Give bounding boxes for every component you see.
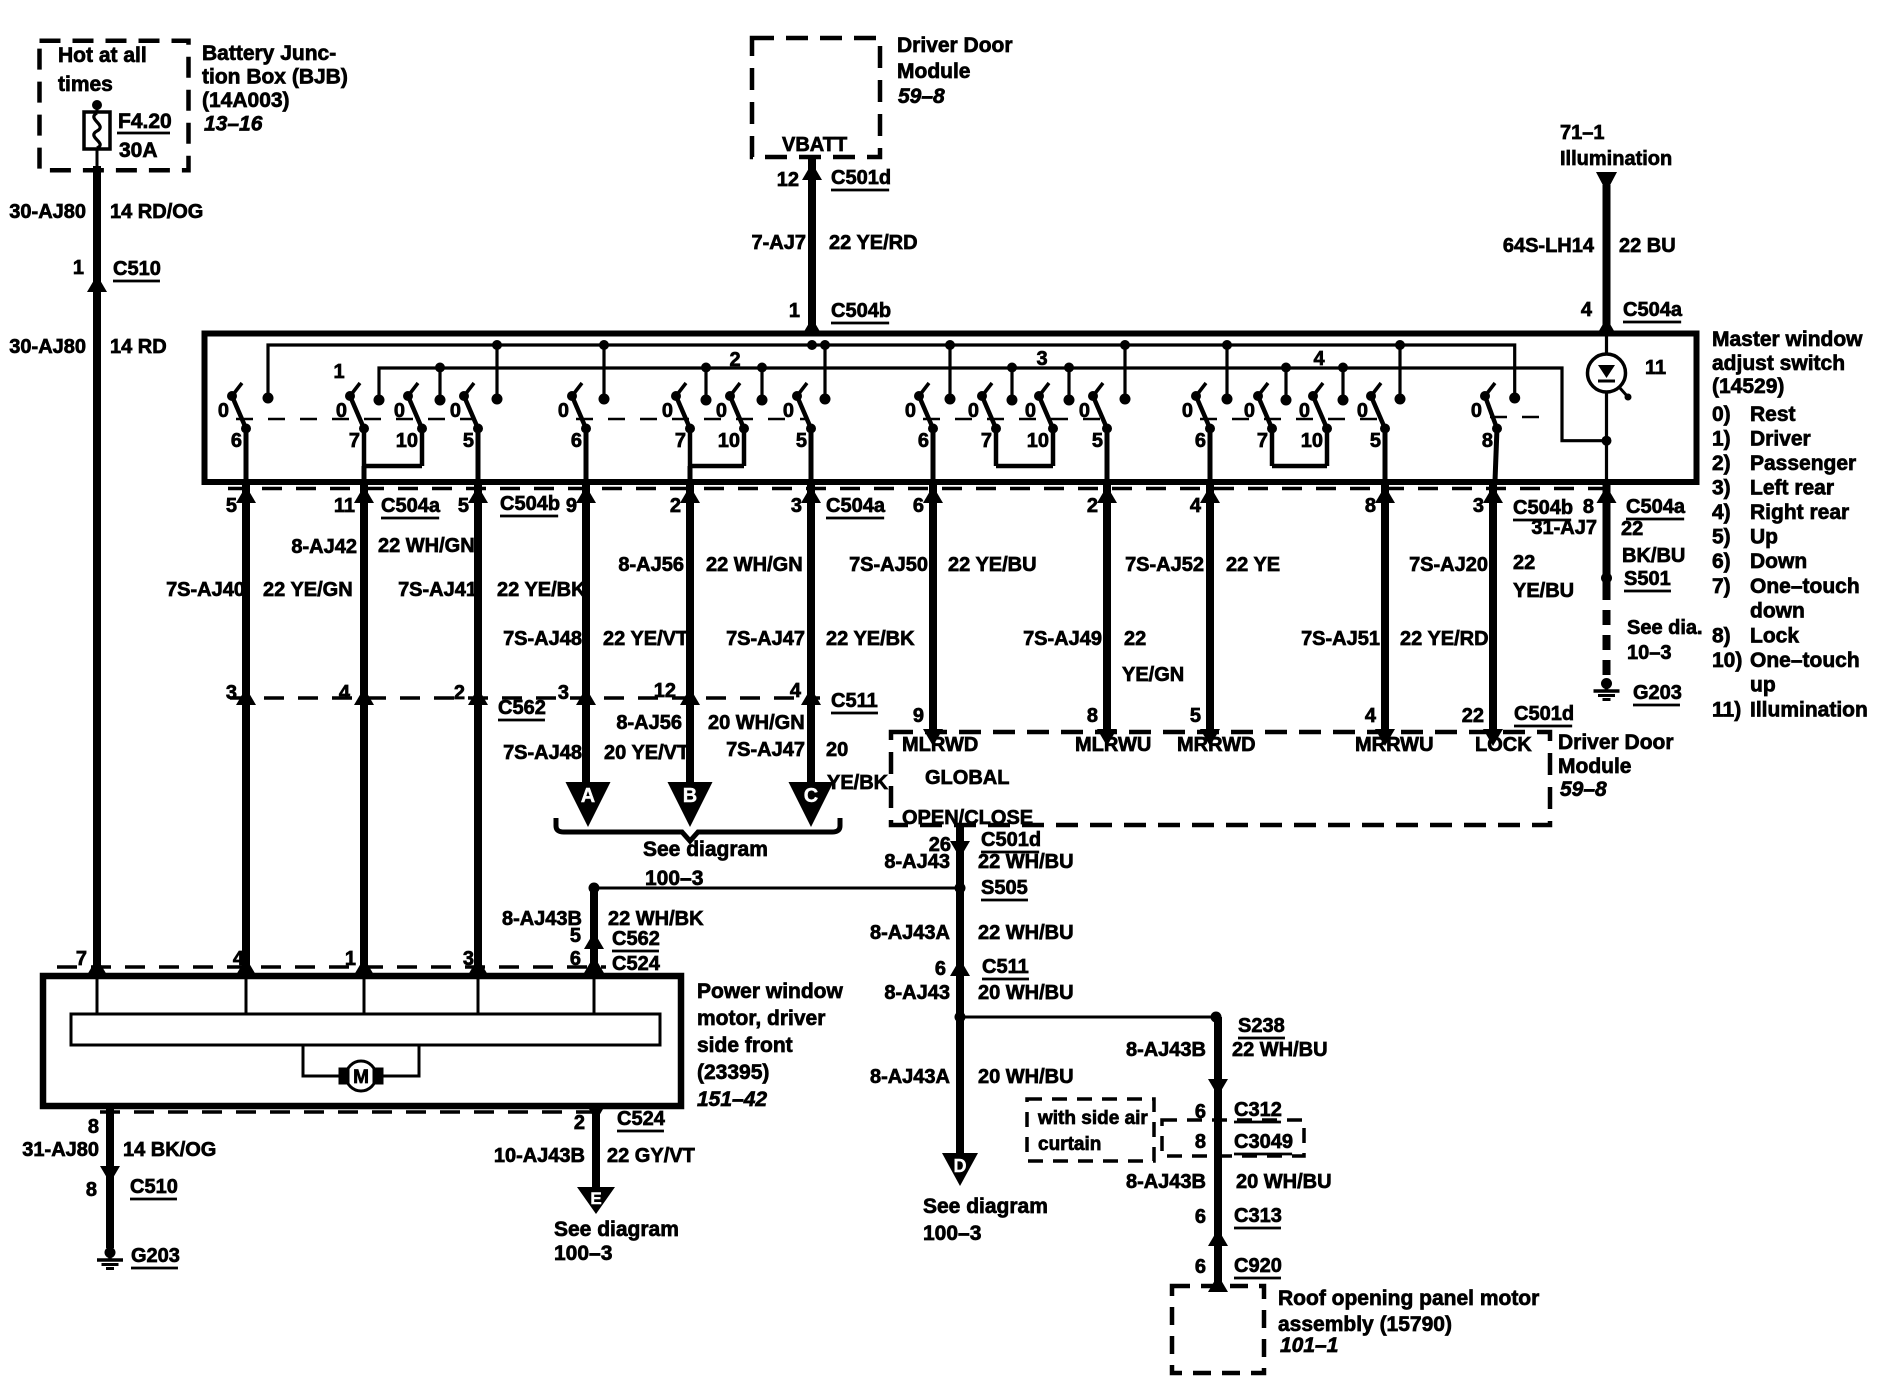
svg-text:3: 3	[558, 682, 569, 704]
svg-text:14 RD: 14 RD	[110, 336, 167, 358]
svg-text:22 WH/GN: 22 WH/GN	[706, 554, 803, 576]
svg-text:curtain: curtain	[1038, 1134, 1101, 1155]
svg-text:22 GY/VT: 22 GY/VT	[607, 1145, 695, 1167]
svg-text:0: 0	[1182, 400, 1193, 422]
svg-text:8: 8	[1195, 1131, 1206, 1153]
svg-text:MLRWD: MLRWD	[902, 734, 978, 756]
svg-text:7: 7	[675, 430, 686, 452]
svg-text:11: 11	[1645, 357, 1666, 379]
svg-text:9: 9	[913, 705, 924, 727]
svg-text:G203: G203	[131, 1245, 180, 1267]
svg-text:tion Box (BJB): tion Box (BJB)	[202, 66, 348, 89]
svg-text:2: 2	[574, 1112, 585, 1134]
svg-text:5: 5	[226, 495, 237, 517]
svg-text:10: 10	[1027, 430, 1049, 452]
svg-text:GLOBAL: GLOBAL	[925, 767, 1009, 789]
svg-text:11): 11)	[1712, 699, 1741, 722]
svg-text:8-AJ56: 8-AJ56	[618, 554, 684, 576]
svg-text:YE/BU: YE/BU	[1513, 580, 1574, 602]
svg-text:VBATT: VBATT	[782, 134, 847, 156]
svg-text:22 YE/GN: 22 YE/GN	[263, 579, 353, 601]
svg-text:3: 3	[1036, 348, 1047, 370]
svg-text:22 WH/BU: 22 WH/BU	[978, 851, 1074, 873]
svg-text:MRRWU: MRRWU	[1355, 734, 1434, 756]
svg-text:0): 0)	[1712, 403, 1731, 426]
svg-text:31-AJ80: 31-AJ80	[22, 1139, 99, 1161]
svg-text:C511: C511	[831, 690, 878, 712]
svg-text:20 YE/VT: 20 YE/VT	[604, 742, 689, 764]
svg-text:3: 3	[463, 948, 474, 970]
svg-text:7S-AJ50: 7S-AJ50	[849, 554, 928, 576]
svg-text:0: 0	[1025, 400, 1036, 422]
svg-text:S501: S501	[1624, 568, 1671, 590]
svg-text:with side air: with side air	[1037, 1108, 1148, 1129]
svg-text:10: 10	[718, 430, 740, 452]
svg-text:10: 10	[1301, 430, 1323, 452]
svg-text:6: 6	[935, 958, 946, 980]
svg-text:0: 0	[905, 400, 916, 422]
svg-text:0: 0	[1244, 400, 1255, 422]
svg-text:C504a: C504a	[1623, 299, 1683, 321]
svg-text:22: 22	[1513, 552, 1535, 574]
svg-text:5: 5	[1092, 430, 1103, 452]
svg-text:MLRWU: MLRWU	[1075, 734, 1151, 756]
svg-text:3: 3	[226, 682, 237, 704]
svg-text:See dia.: See dia.	[1627, 617, 1703, 639]
svg-text:4: 4	[1581, 299, 1593, 321]
svg-text:8): 8)	[1712, 625, 1731, 648]
svg-text:Rest: Rest	[1750, 403, 1796, 426]
svg-text:C920: C920	[1234, 1255, 1282, 1277]
svg-text:side front: side front	[697, 1034, 793, 1057]
svg-text:5: 5	[458, 495, 469, 517]
svg-text:5: 5	[1190, 705, 1201, 727]
svg-text:6: 6	[1195, 1256, 1206, 1278]
svg-text:22 YE/BK: 22 YE/BK	[826, 628, 915, 650]
svg-text:D: D	[954, 1156, 967, 1176]
svg-text:3): 3)	[1712, 477, 1731, 500]
svg-text:22 YE/BU: 22 YE/BU	[948, 554, 1037, 576]
svg-text:See diagram: See diagram	[554, 1218, 679, 1241]
svg-text:BK/BU: BK/BU	[1622, 545, 1685, 567]
svg-text:times: times	[58, 73, 113, 96]
svg-text:8-AJ42: 8-AJ42	[291, 536, 357, 558]
svg-text:7S-AJ49: 7S-AJ49	[1023, 628, 1102, 650]
svg-text:7): 7)	[1712, 575, 1731, 598]
svg-text:C511: C511	[982, 956, 1029, 978]
svg-text:2: 2	[670, 495, 681, 517]
svg-text:up: up	[1750, 674, 1776, 697]
svg-text:8-AJ56: 8-AJ56	[616, 712, 682, 734]
svg-text:8: 8	[1365, 495, 1376, 517]
svg-text:8-AJ43: 8-AJ43	[884, 851, 950, 873]
svg-text:9: 9	[566, 495, 577, 517]
svg-text:22: 22	[1462, 705, 1484, 727]
svg-text:22 WH/GN: 22 WH/GN	[378, 535, 475, 557]
svg-text:22 YE/RD: 22 YE/RD	[1400, 628, 1489, 650]
svg-text:0: 0	[716, 400, 727, 422]
svg-text:C504b: C504b	[1513, 497, 1573, 519]
svg-text:C562: C562	[612, 928, 660, 950]
svg-text:10–3: 10–3	[1627, 642, 1672, 664]
svg-text:Up: Up	[1750, 526, 1778, 549]
svg-text:7: 7	[349, 430, 360, 452]
svg-text:7: 7	[1257, 430, 1268, 452]
svg-text:22 YE/VT: 22 YE/VT	[603, 628, 688, 650]
svg-text:Battery Junc-: Battery Junc-	[202, 42, 336, 65]
svg-text:Driver: Driver	[1750, 428, 1811, 451]
svg-text:(23395): (23395)	[697, 1061, 769, 1084]
svg-text:22 WH/BK: 22 WH/BK	[608, 908, 704, 930]
svg-text:S505: S505	[981, 877, 1028, 899]
svg-text:C501d: C501d	[831, 167, 891, 189]
svg-text:7S-AJ52: 7S-AJ52	[1125, 554, 1204, 576]
svg-text:7S-AJ41: 7S-AJ41	[398, 579, 477, 601]
svg-text:4: 4	[1365, 705, 1377, 727]
svg-text:22 YE/RD: 22 YE/RD	[829, 232, 918, 254]
svg-text:2: 2	[454, 682, 465, 704]
svg-text:7S-AJ51: 7S-AJ51	[1301, 628, 1380, 650]
svg-text:30-AJ80: 30-AJ80	[9, 201, 86, 223]
svg-text:Passenger: Passenger	[1750, 452, 1856, 475]
svg-text:See diagram: See diagram	[923, 1195, 1048, 1218]
svg-text:22 YE: 22 YE	[1226, 554, 1280, 576]
svg-text:0: 0	[558, 400, 569, 422]
svg-text:0: 0	[1471, 400, 1482, 422]
svg-text:7S-AJ48: 7S-AJ48	[503, 742, 582, 764]
svg-text:Lock: Lock	[1750, 625, 1799, 648]
svg-text:5: 5	[570, 925, 581, 947]
svg-text:7S-AJ47: 7S-AJ47	[726, 739, 805, 761]
svg-text:6: 6	[1195, 430, 1206, 452]
svg-text:assembly (15790): assembly (15790)	[1278, 1313, 1452, 1336]
svg-text:12: 12	[777, 169, 799, 191]
svg-text:One–touch: One–touch	[1750, 575, 1860, 598]
svg-text:C313: C313	[1234, 1205, 1282, 1227]
svg-text:22 YE/BK: 22 YE/BK	[497, 579, 586, 601]
svg-text:0: 0	[662, 400, 673, 422]
svg-text:Down: Down	[1750, 550, 1807, 573]
svg-text:7: 7	[981, 430, 992, 452]
svg-text:8: 8	[1583, 496, 1594, 518]
svg-text:2: 2	[729, 349, 740, 371]
svg-text:22 BU: 22 BU	[1619, 235, 1676, 257]
svg-text:C504a: C504a	[381, 495, 441, 517]
svg-text:Right rear: Right rear	[1750, 501, 1849, 524]
svg-text:30-AJ80: 30-AJ80	[9, 336, 86, 358]
svg-text:8-AJ43B: 8-AJ43B	[1126, 1171, 1206, 1193]
svg-text:5: 5	[463, 430, 474, 452]
svg-text:22 WH/BU: 22 WH/BU	[978, 922, 1074, 944]
svg-text:10: 10	[396, 430, 418, 452]
svg-text:30A: 30A	[119, 139, 158, 162]
svg-text:C3049: C3049	[1234, 1131, 1293, 1153]
svg-text:7S-AJ47: 7S-AJ47	[726, 628, 805, 650]
svg-text:4: 4	[790, 680, 802, 702]
svg-text:0: 0	[218, 400, 229, 422]
svg-text:E: E	[590, 1189, 601, 1208]
svg-text:See diagram: See diagram	[643, 838, 768, 861]
svg-text:10-AJ43B: 10-AJ43B	[494, 1145, 585, 1167]
svg-text:8: 8	[1087, 705, 1098, 727]
svg-text:C504b: C504b	[500, 493, 560, 515]
svg-text:1: 1	[789, 300, 800, 322]
svg-text:Module: Module	[897, 60, 971, 83]
svg-text:F4.20: F4.20	[118, 110, 172, 133]
svg-text:4: 4	[1190, 495, 1202, 517]
svg-text:G203: G203	[1633, 682, 1682, 704]
svg-text:0: 0	[968, 400, 979, 422]
svg-text:C510: C510	[130, 1176, 178, 1198]
svg-text:Master window: Master window	[1712, 328, 1863, 351]
svg-text:13–16: 13–16	[204, 113, 263, 136]
svg-text:100–3: 100–3	[923, 1222, 981, 1245]
svg-text:Module: Module	[1558, 755, 1632, 778]
svg-text:6: 6	[571, 430, 582, 452]
svg-text:5: 5	[1370, 430, 1381, 452]
svg-text:Roof opening panel motor: Roof opening panel motor	[1278, 1287, 1539, 1310]
svg-text:2): 2)	[1712, 452, 1731, 475]
svg-text:Driver Door: Driver Door	[897, 34, 1013, 57]
svg-text:0: 0	[1079, 400, 1090, 422]
svg-text:6: 6	[913, 495, 924, 517]
svg-text:22 WH/BU: 22 WH/BU	[1232, 1039, 1328, 1061]
svg-text:C504b: C504b	[831, 300, 891, 322]
svg-text:7S-AJ20: 7S-AJ20	[1409, 554, 1488, 576]
svg-text:5): 5)	[1712, 526, 1731, 549]
svg-text:71–1: 71–1	[1560, 122, 1605, 144]
svg-text:4: 4	[339, 682, 351, 704]
svg-text:C524: C524	[617, 1108, 666, 1130]
svg-text:YE/GN: YE/GN	[1122, 664, 1184, 686]
svg-text:5: 5	[796, 430, 807, 452]
svg-text:A: A	[581, 785, 595, 807]
svg-text:151–42: 151–42	[697, 1088, 767, 1111]
svg-text:Illumination: Illumination	[1560, 148, 1672, 170]
svg-text:0: 0	[1299, 400, 1310, 422]
svg-text:0: 0	[336, 400, 347, 422]
svg-text:0: 0	[1357, 400, 1368, 422]
svg-text:6: 6	[918, 430, 929, 452]
svg-text:3: 3	[1473, 495, 1484, 517]
svg-text:22: 22	[1124, 628, 1146, 650]
svg-text:Driver Door: Driver Door	[1558, 731, 1674, 754]
svg-text:1: 1	[345, 948, 356, 970]
svg-text:C501d: C501d	[1514, 703, 1574, 725]
svg-text:7-AJ7: 7-AJ7	[752, 232, 806, 254]
svg-text:7S-AJ40: 7S-AJ40	[166, 579, 245, 601]
svg-text:C501d: C501d	[981, 829, 1041, 851]
svg-text:6: 6	[231, 430, 242, 452]
svg-text:8: 8	[88, 1116, 99, 1138]
svg-text:0: 0	[450, 400, 461, 422]
svg-text:4): 4)	[1712, 501, 1731, 524]
svg-text:0: 0	[394, 400, 405, 422]
svg-text:31-AJ7: 31-AJ7	[1531, 517, 1597, 539]
svg-text:adjust switch: adjust switch	[1712, 352, 1845, 375]
svg-text:8-AJ43A: 8-AJ43A	[870, 1066, 950, 1088]
svg-text:14 BK/OG: 14 BK/OG	[123, 1139, 216, 1161]
svg-text:One–touch: One–touch	[1750, 649, 1860, 672]
svg-text:1): 1)	[1712, 428, 1731, 451]
svg-text:14 RD/OG: 14 RD/OG	[110, 201, 203, 223]
svg-text:motor, driver: motor, driver	[697, 1007, 825, 1030]
svg-text:7S-AJ48: 7S-AJ48	[503, 628, 582, 650]
svg-text:59–8: 59–8	[898, 85, 945, 108]
svg-text:Illumination: Illumination	[1750, 699, 1868, 722]
svg-text:(14529): (14529)	[1712, 375, 1784, 398]
svg-text:2: 2	[1087, 495, 1098, 517]
svg-text:Hot at all: Hot at all	[58, 44, 147, 67]
svg-text:C510: C510	[113, 258, 161, 280]
svg-text:(14A003): (14A003)	[202, 89, 290, 112]
svg-text:101–1: 101–1	[1280, 1334, 1338, 1357]
svg-text:12: 12	[654, 680, 676, 702]
svg-text:8: 8	[1482, 430, 1493, 452]
svg-text:S238: S238	[1238, 1015, 1285, 1037]
svg-text:20 WH/BU: 20 WH/BU	[978, 1066, 1074, 1088]
svg-text:8-AJ43A: 8-AJ43A	[870, 922, 950, 944]
svg-text:Left rear: Left rear	[1750, 477, 1834, 500]
svg-text:4: 4	[1313, 348, 1325, 370]
svg-text:3: 3	[791, 495, 802, 517]
svg-text:20 WH/GN: 20 WH/GN	[708, 712, 805, 734]
svg-text:6): 6)	[1712, 550, 1731, 573]
svg-text:8: 8	[86, 1179, 97, 1201]
svg-text:Power window: Power window	[697, 980, 844, 1003]
svg-text:8-AJ43: 8-AJ43	[884, 982, 950, 1004]
svg-text:C504a: C504a	[1626, 496, 1686, 518]
svg-text:MRRWD: MRRWD	[1177, 734, 1256, 756]
svg-text:20 WH/BU: 20 WH/BU	[978, 982, 1074, 1004]
svg-text:22: 22	[1621, 518, 1643, 540]
svg-text:1: 1	[333, 361, 344, 383]
svg-text:0: 0	[783, 400, 794, 422]
svg-text:20: 20	[826, 739, 848, 761]
svg-text:down: down	[1750, 600, 1805, 623]
svg-text:20 WH/BU: 20 WH/BU	[1236, 1171, 1332, 1193]
svg-text:OPEN/CLOSE: OPEN/CLOSE	[902, 807, 1033, 829]
svg-text:C504a: C504a	[826, 495, 886, 517]
svg-text:64S-LH14: 64S-LH14	[1503, 235, 1595, 257]
svg-text:1: 1	[73, 257, 84, 279]
svg-text:B: B	[683, 785, 697, 807]
svg-text:11: 11	[334, 495, 355, 517]
svg-text:C: C	[804, 785, 818, 807]
svg-text:C562: C562	[498, 697, 546, 719]
svg-text:8-AJ43B: 8-AJ43B	[1126, 1039, 1206, 1061]
svg-text:59–8: 59–8	[1560, 778, 1607, 801]
svg-text:C312: C312	[1234, 1099, 1282, 1121]
svg-text:LOCK: LOCK	[1475, 734, 1532, 756]
svg-text:7: 7	[76, 948, 87, 970]
svg-text:10): 10)	[1712, 649, 1742, 672]
svg-text:100–3: 100–3	[554, 1242, 612, 1265]
svg-text:6: 6	[1195, 1206, 1206, 1228]
svg-text:C524: C524	[612, 953, 661, 975]
svg-text:YE/BK: YE/BK	[827, 772, 889, 794]
svg-text:M: M	[353, 1067, 369, 1088]
